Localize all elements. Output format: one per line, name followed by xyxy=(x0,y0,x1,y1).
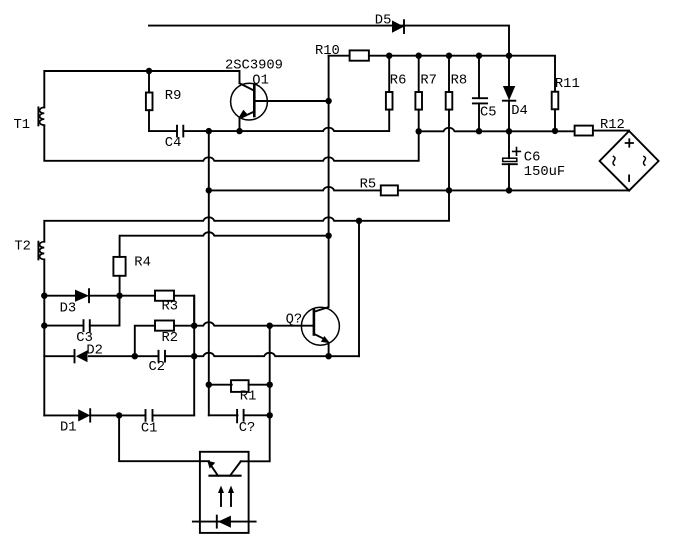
node xyxy=(476,53,482,59)
svg-text:R9: R9 xyxy=(165,89,182,104)
node xyxy=(116,412,122,418)
wire Q2 emitter riser xyxy=(358,221,360,356)
resistor R1 xyxy=(209,380,270,392)
wire C4 line right with hop, to R6 bottom xyxy=(183,110,389,132)
wire vertical x194 xyxy=(193,296,195,416)
node xyxy=(506,128,512,134)
wire x208 vertical xyxy=(208,131,210,415)
node xyxy=(206,128,212,134)
wire xyxy=(89,355,159,357)
resistor R3 xyxy=(89,291,194,326)
resistor R6 xyxy=(386,56,393,110)
node xyxy=(41,293,47,299)
resistor R8 xyxy=(446,56,453,191)
svg-text:T2: T2 xyxy=(14,239,31,254)
capacitor C7 xyxy=(209,410,270,422)
diode D2 xyxy=(75,350,88,362)
svg-text:R10: R10 xyxy=(315,44,340,59)
transformer T2 xyxy=(38,242,44,260)
resistor R11 xyxy=(552,92,559,131)
svg-text:R12: R12 xyxy=(600,118,625,133)
node xyxy=(236,128,242,134)
wire R5 line from x208 vertical to bridge bottom xyxy=(209,187,381,190)
capacitor C1 xyxy=(146,410,195,421)
wire opto emitter wire xyxy=(119,415,209,461)
svg-text:D5: D5 xyxy=(375,14,392,29)
svg-text:150uF: 150uF xyxy=(524,165,565,180)
node xyxy=(41,322,47,328)
svg-text:C?: C? xyxy=(239,421,256,436)
diode D5 xyxy=(392,20,404,33)
node xyxy=(416,53,422,59)
node xyxy=(446,53,452,59)
svg-text:R6: R6 xyxy=(390,74,407,89)
capacitor C2 xyxy=(159,351,360,362)
resistor R10 xyxy=(329,50,369,60)
resistor R5 xyxy=(381,185,629,195)
node xyxy=(325,353,331,359)
svg-text:D1: D1 xyxy=(60,421,77,436)
svg-text:C5: C5 xyxy=(480,106,497,121)
wire T2 top line with hops, up to R5 line at right xyxy=(44,190,449,241)
node xyxy=(206,382,212,388)
bridge rectifier xyxy=(600,131,659,191)
wire C3 line xyxy=(44,325,83,327)
svg-text:C6: C6 xyxy=(524,151,541,166)
wire x269 vertical xyxy=(269,326,271,416)
node xyxy=(416,128,422,134)
svg-text:R1: R1 xyxy=(240,389,257,404)
resistor R2 xyxy=(155,321,314,331)
capacitor C4 xyxy=(177,126,183,137)
svg-text:D4: D4 xyxy=(511,104,528,119)
node xyxy=(191,323,197,329)
transformer T1 xyxy=(38,107,44,125)
node xyxy=(552,128,558,134)
node xyxy=(356,218,362,224)
diode D4 xyxy=(503,56,515,132)
wire top bus to R11 xyxy=(369,56,555,92)
wire R2 line with hop, continuing to Q2 base xyxy=(135,326,155,357)
node xyxy=(386,53,392,59)
node xyxy=(446,187,452,193)
resistor R9 xyxy=(146,71,153,131)
node xyxy=(267,412,273,418)
node xyxy=(267,323,273,329)
resistor R7 xyxy=(415,56,422,132)
node xyxy=(476,128,482,134)
wire T1 loop top xyxy=(44,71,239,107)
diode D1 xyxy=(78,409,90,421)
wire vertical from R10 lead down to Q2 collector node xyxy=(328,56,330,236)
node xyxy=(267,382,273,388)
svg-text:R2: R2 xyxy=(162,331,179,346)
node xyxy=(325,233,331,239)
capacitor C3 xyxy=(84,296,120,331)
wire opto collector wire xyxy=(241,415,270,461)
wire top rail from left corner through D5 down to bus xyxy=(149,26,509,56)
transistor Q1 xyxy=(231,83,329,131)
wire C4 line left xyxy=(149,130,177,132)
svg-text:R7: R7 xyxy=(420,74,437,89)
node xyxy=(206,187,212,193)
svg-text:R8: R8 xyxy=(451,74,468,89)
svg-text:C2: C2 xyxy=(149,360,166,375)
transistor Q2 xyxy=(301,236,339,357)
svg-text:2SC3909: 2SC3909 xyxy=(225,59,283,74)
optocoupler U1 xyxy=(193,452,256,533)
node xyxy=(191,353,197,359)
svg-text:D3: D3 xyxy=(60,301,77,316)
node xyxy=(132,353,138,359)
resistor R12 xyxy=(575,126,629,136)
svg-text:R4: R4 xyxy=(134,255,151,270)
wire T2 left column xyxy=(43,259,45,415)
wire T1 loop bottom with hops xyxy=(44,125,418,160)
wire R4 line with hop xyxy=(120,232,329,257)
capacitor C5 xyxy=(473,56,487,132)
svg-text:R3: R3 xyxy=(162,299,179,314)
wire bottom right bus with hop over R8 xyxy=(419,128,575,131)
node xyxy=(506,53,512,59)
wire xyxy=(90,414,145,416)
capacitor C6 electrolytic xyxy=(503,131,521,190)
wire D1 C1 line xyxy=(44,414,78,416)
resistor R4 xyxy=(113,257,125,296)
wire D2 C2 line with hops xyxy=(44,355,74,357)
node xyxy=(506,187,512,193)
diode D3 xyxy=(75,289,89,302)
svg-text:C4: C4 xyxy=(165,136,182,151)
svg-text:C1: C1 xyxy=(141,422,158,437)
svg-text:T1: T1 xyxy=(14,118,31,133)
svg-text:R11: R11 xyxy=(555,77,580,92)
node Q1 base junction xyxy=(325,98,331,104)
svg-text:Q1: Q1 xyxy=(252,74,269,89)
svg-text:R5: R5 xyxy=(360,177,377,192)
wire D3 R3 line xyxy=(44,295,75,297)
node xyxy=(116,293,122,299)
node at 149,71 xyxy=(146,68,152,74)
svg-text:Q?: Q? xyxy=(286,312,303,327)
